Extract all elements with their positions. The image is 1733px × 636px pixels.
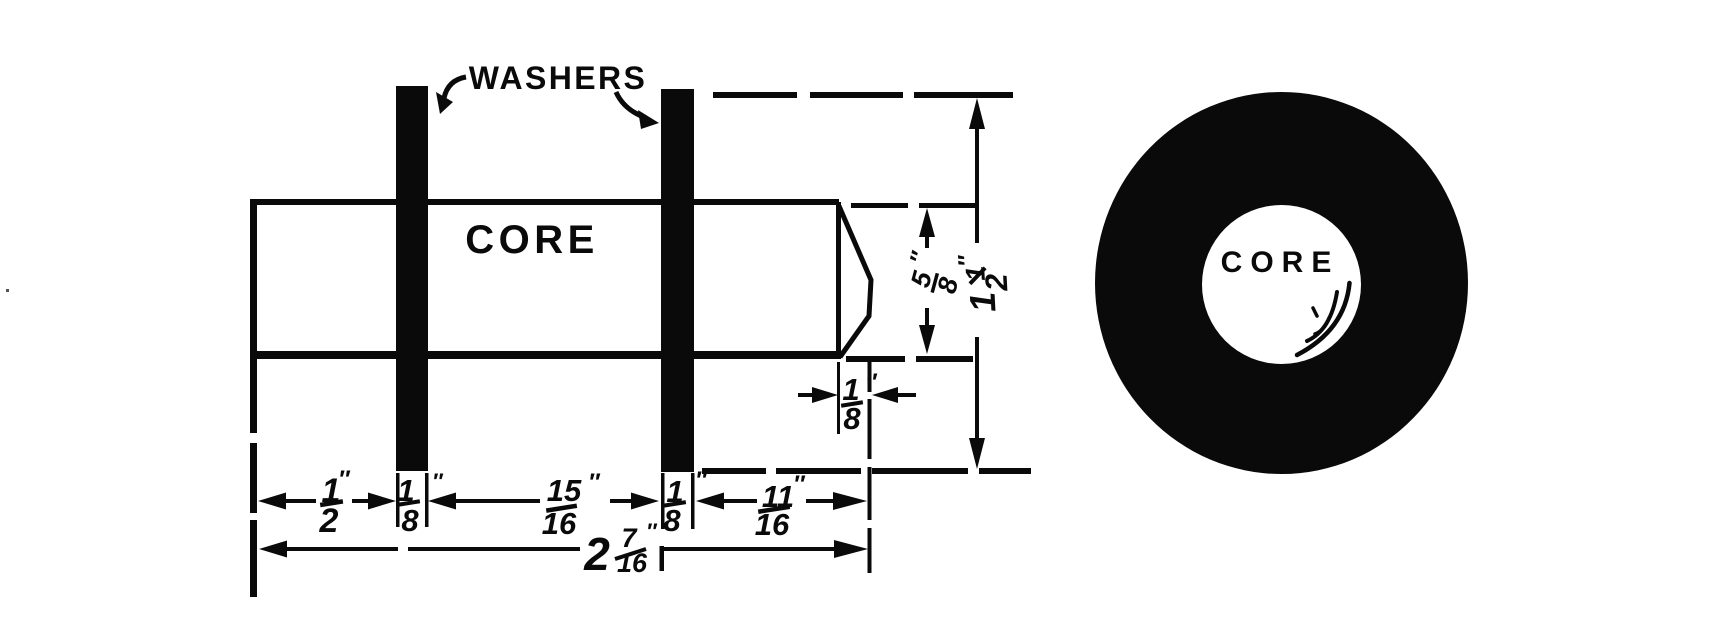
core left end line xyxy=(250,199,257,597)
svg-text:16: 16 xyxy=(542,506,577,541)
svg-text:8: 8 xyxy=(931,274,964,296)
end view disc xyxy=(1095,92,1468,474)
svg-text:″: ″ xyxy=(953,253,981,266)
dim text 1/8 (washer W2) xyxy=(663,467,708,538)
end view hole xyxy=(1202,205,1361,364)
taper dim 1/8 text xyxy=(841,369,878,436)
leader arrow to washer W1 xyxy=(436,77,466,114)
svg-text:16: 16 xyxy=(755,507,790,542)
svg-text:″: ″ xyxy=(695,467,708,494)
extension lines washer W1 xyxy=(396,473,429,527)
washer W2 xyxy=(661,89,694,472)
svg-text:15: 15 xyxy=(547,473,582,508)
dim 1-1/2 vertical line with arrows xyxy=(969,98,985,469)
dim text 1/8 (washer W1) xyxy=(397,469,444,538)
top edge dashed extension xyxy=(851,203,975,208)
svg-text:8: 8 xyxy=(663,503,681,538)
leader arrow to washer W2 xyxy=(616,92,659,129)
dim row2 2-7/16 total xyxy=(259,540,868,558)
dim 5/8 text xyxy=(899,248,969,300)
svg-text:″: ″ xyxy=(338,466,351,493)
shading arcs in hole xyxy=(1297,283,1350,355)
taper dim 1/8 arrows xyxy=(798,387,916,403)
stray speck xyxy=(6,289,9,292)
svg-text:WASHERS: WASHERS xyxy=(469,60,648,96)
extension line from core end xyxy=(837,362,840,434)
svg-text:″: ″ xyxy=(865,369,878,396)
svg-text:2: 2 xyxy=(583,528,610,580)
core top edge xyxy=(250,199,839,205)
upper extension dashed line for 1-1/2 dim xyxy=(713,92,1013,98)
svg-text:2: 2 xyxy=(319,502,339,540)
svg-text:″: ″ xyxy=(646,519,658,544)
svg-text:″: ″ xyxy=(793,471,806,498)
extension line from taper point (dashed) xyxy=(868,362,872,573)
svg-text:8: 8 xyxy=(401,503,419,538)
dim row1 1/2 segment xyxy=(258,493,396,510)
bottom edge dashed extension xyxy=(846,356,973,362)
dim text 15/16 xyxy=(542,469,601,541)
svg-text:1: 1 xyxy=(961,291,1003,313)
extension lines washer W2 xyxy=(661,473,695,529)
svg-text:CORE: CORE xyxy=(1221,246,1340,279)
svg-text:″: ″ xyxy=(432,469,444,494)
svg-text:2: 2 xyxy=(979,273,1015,293)
dim 5/8 vertical line with arrows xyxy=(919,208,935,354)
svg-text:″: ″ xyxy=(905,248,934,268)
lower extension dashed line for 1-1/2 dim xyxy=(702,468,1031,474)
dim text 1/2 xyxy=(319,466,351,540)
dim text 2-7/16 xyxy=(583,519,664,580)
dim row1 15/16 segment xyxy=(428,493,659,510)
core taper outline xyxy=(839,206,871,357)
washer W1 xyxy=(396,86,428,471)
dim 1-1/2 text xyxy=(953,251,1015,313)
core bottom edge xyxy=(250,351,840,359)
svg-text:8: 8 xyxy=(843,401,861,436)
svg-text:CORE: CORE xyxy=(465,218,599,262)
svg-text:16: 16 xyxy=(617,548,648,578)
dim row1 11/16 segment xyxy=(696,492,867,510)
dim text 11/16 xyxy=(755,471,806,542)
svg-text:″: ″ xyxy=(588,469,601,496)
core right end line xyxy=(836,202,841,359)
